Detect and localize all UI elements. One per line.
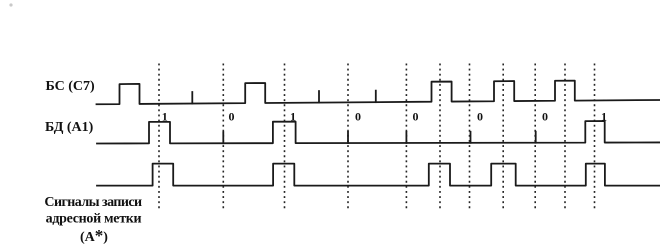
BD zero-bit tick at x=470.5	[470, 132, 472, 143]
dotted grid line 9 at x=535.2	[534, 64, 536, 210]
BD zero-bit tick at x=535.7	[535, 132, 537, 143]
waveform BS (C7) clock signal	[97, 81, 660, 105]
dotted grid line 3 at x=284.5	[284, 64, 286, 210]
svg-text:адресной метки: адресной метки	[46, 212, 142, 227]
waveform write signals of address mark (A*)	[97, 164, 660, 186]
BS missing-clock tick at x=375.8	[375, 91, 377, 103]
svg-text:0: 0	[229, 110, 235, 124]
svg-text:БД (А1): БД (А1)	[45, 120, 94, 135]
dotted grid line 8 at x=503.2	[502, 64, 504, 210]
dotted grid line 7 at x=469.5	[469, 64, 471, 210]
dotted grid line 2 at x=223.3	[222, 64, 224, 210]
dotted grid line 4 at x=348.0	[347, 64, 349, 210]
dotted grid line 10 at x=565.0	[564, 64, 566, 210]
dotted grid line 5 at x=406.4	[405, 64, 407, 210]
BD zero-bit tick at x=348.0	[347, 132, 349, 143]
BD zero-bit tick at x=223.3	[222, 132, 224, 143]
svg-text:1: 1	[162, 110, 168, 124]
svg-text:0: 0	[355, 110, 361, 124]
scan speck top-left	[9, 3, 12, 6]
waveform BD (A1) data signal	[97, 121, 660, 143]
svg-text:1: 1	[290, 110, 296, 124]
svg-text:0: 0	[477, 110, 483, 124]
BS missing-clock tick at x=319.0	[318, 91, 320, 103]
dotted grid line 11 at x=594.5	[594, 64, 596, 210]
dotted grid line 1 at x=159.0	[158, 64, 160, 210]
BS missing-clock tick at x=192.3	[191, 92, 193, 104]
svg-text:0: 0	[542, 110, 548, 124]
svg-text:1: 1	[601, 110, 607, 124]
BD zero-bit tick at x=406.4	[405, 132, 407, 143]
dotted grid line 6 at x=440.0	[439, 64, 441, 210]
svg-text:Сигналы записи: Сигналы записи	[44, 195, 142, 210]
svg-text:0: 0	[413, 110, 419, 124]
svg-text:БС (С7): БС (С7)	[46, 79, 96, 94]
